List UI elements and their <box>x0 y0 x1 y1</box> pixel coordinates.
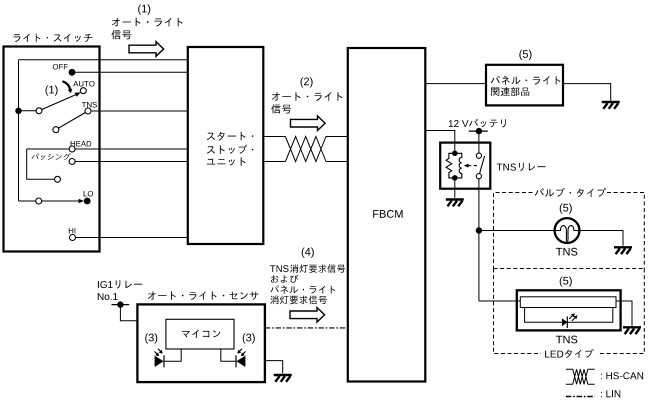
node HI contact <box>70 235 76 241</box>
node coil bottom <box>452 175 458 181</box>
auto light sensor box <box>137 304 265 382</box>
bulb TNS lamp <box>555 218 580 243</box>
panel light parts box <box>486 65 563 106</box>
relay switch arm <box>480 156 485 173</box>
LED unit outer box <box>517 290 621 330</box>
label パネル・ライト (4) <box>270 285 335 293</box>
wire CAN top stub left <box>263 136 285 138</box>
wire photodiode right to micon <box>221 349 236 361</box>
wire IG1 to sensor <box>120 305 137 321</box>
label パッシング <box>32 153 71 160</box>
label 関連部品 <box>491 87 529 96</box>
node relay switch top <box>476 153 481 158</box>
label HEAD <box>71 141 92 146</box>
node IG1 junction <box>117 301 123 307</box>
node passing contact <box>69 159 75 165</box>
wire feed to LED unit <box>479 300 520 302</box>
wire feed to arm pivot <box>19 110 37 112</box>
label TNS LED <box>556 336 577 344</box>
label LEDタイプ <box>545 349 594 358</box>
wire FBCM to panel box <box>425 83 486 85</box>
ground G2 relay <box>446 200 464 207</box>
switch arm TNS <box>58 113 85 129</box>
wire common to unit y59 <box>19 59 189 61</box>
node bulb tap junction <box>476 227 482 233</box>
LED unit connector rect <box>520 297 616 308</box>
wire LED unit to ground <box>616 301 632 326</box>
label スタート・ <box>207 132 253 141</box>
ground G1 panel <box>602 102 620 109</box>
label オート・ライト (2) <box>272 92 343 101</box>
LED type dashed box <box>494 269 645 354</box>
label オート・ライト・センサ <box>148 291 259 300</box>
wire LIN sensor to FBCM <box>265 327 348 329</box>
wire CAN strand B <box>285 137 326 162</box>
ground G4 bulb <box>614 247 632 254</box>
label AUTO <box>73 81 94 87</box>
label (2) <box>301 77 313 87</box>
label IG1リレー <box>98 280 142 288</box>
label ストップ・ <box>207 145 253 154</box>
label 消灯要求信号 (4) <box>270 295 327 304</box>
node OFF contact <box>69 69 76 76</box>
wire CAN top stub right <box>326 136 348 138</box>
label (1) top <box>138 4 150 14</box>
wire relay switch down feed <box>478 179 480 301</box>
label HS-CAN <box>601 372 643 379</box>
wire tap to bulb <box>479 230 555 232</box>
label (1) switch <box>46 85 58 95</box>
relay coil zigzag <box>446 153 455 178</box>
node relay switch bottom <box>476 174 481 179</box>
ground G5 LED <box>623 327 641 334</box>
wire passing to unit <box>75 161 188 163</box>
wire CAN bottom stub right <box>326 161 348 163</box>
FBCM box <box>348 48 426 382</box>
legend LIN symbol <box>566 396 595 398</box>
label (3) left <box>145 333 157 343</box>
microcomputer box <box>166 319 234 349</box>
relay actuation dashes <box>468 165 477 167</box>
light switch title ライト・スイッチ <box>13 34 92 42</box>
bulb type dashed box <box>494 193 645 269</box>
relay box <box>440 143 490 189</box>
label および <box>271 275 298 283</box>
label (4) <box>302 248 314 258</box>
node TNS arm pivot <box>53 127 59 133</box>
label TNS消灯要求信号 <box>270 264 345 273</box>
label マイコン <box>182 330 221 338</box>
rotation arrow (1) <box>63 81 71 89</box>
signal arrow (2) <box>291 116 326 131</box>
label HI <box>69 228 76 233</box>
switch arm to AUTO <box>42 94 77 109</box>
switch arm LO <box>42 200 80 202</box>
wire FBCM to relay coil <box>425 131 455 151</box>
node battery junction <box>476 128 482 134</box>
label パネル・ライト <box>491 76 561 85</box>
wire battery to relay switch <box>478 131 480 153</box>
wire TNS to unit <box>91 110 188 112</box>
label TNSリレー <box>497 163 546 171</box>
label 信号 (2) <box>271 104 291 113</box>
label TNS bulb <box>556 248 577 256</box>
photodiode left <box>155 356 164 367</box>
relay coil arcs <box>455 153 462 178</box>
wire CAN strand A <box>285 137 326 162</box>
legend HS-CAN symbol <box>566 369 595 384</box>
node AUTO contact <box>80 88 86 94</box>
wire coil to ground <box>454 181 456 198</box>
node TNS contact <box>85 108 91 114</box>
label No.1 <box>98 293 118 300</box>
label 信号 (1) <box>112 30 132 39</box>
photodiode right <box>236 356 245 367</box>
label FBCM <box>373 210 402 218</box>
light switch box <box>4 47 100 252</box>
signal arrow (1) <box>129 42 164 57</box>
wire OFF to unit <box>72 71 188 73</box>
label LO <box>84 191 93 197</box>
label (5) bulb <box>560 204 572 214</box>
label オート・ライト (1) <box>112 18 183 27</box>
wire CAN bottom stub left <box>263 161 285 163</box>
wire photodiode left to micon <box>164 349 181 361</box>
node arm pivot <box>36 108 42 114</box>
wire switch common feed <box>18 60 20 201</box>
label LIN <box>601 390 620 397</box>
LED D1 <box>562 318 567 326</box>
node passing pivot <box>55 176 61 182</box>
node LO pivot <box>36 198 42 204</box>
wire panel box to ground <box>563 84 611 101</box>
node coil top <box>452 151 458 157</box>
wire passing link <box>27 149 55 179</box>
wire feed to LO pivot <box>19 200 36 202</box>
wire bulb to ground <box>579 231 623 246</box>
label OFF <box>53 64 68 70</box>
wire head link <box>27 148 69 150</box>
ground G3 sensor <box>274 375 292 382</box>
IG1 rail bar <box>112 304 130 306</box>
node HEAD contact <box>69 146 75 152</box>
signal arrow (4) <box>290 308 325 323</box>
start-stop unit box <box>188 47 263 244</box>
node feed junction <box>15 108 21 114</box>
wire HI to unit <box>76 237 189 239</box>
battery rail bar <box>469 130 488 132</box>
label (3) right <box>243 333 255 343</box>
label (5) LED <box>560 277 572 287</box>
label バルブ・タイプ <box>535 188 606 197</box>
node LO contact <box>84 198 91 205</box>
label 12 Vバッテリ <box>449 119 506 128</box>
LED unit inner rect <box>525 308 613 323</box>
label ユニット <box>207 157 246 165</box>
label (5) panel <box>519 50 531 60</box>
wire sensor to ground <box>265 361 283 374</box>
wire HEAD to unit <box>75 148 188 150</box>
label TNS <box>82 102 97 108</box>
